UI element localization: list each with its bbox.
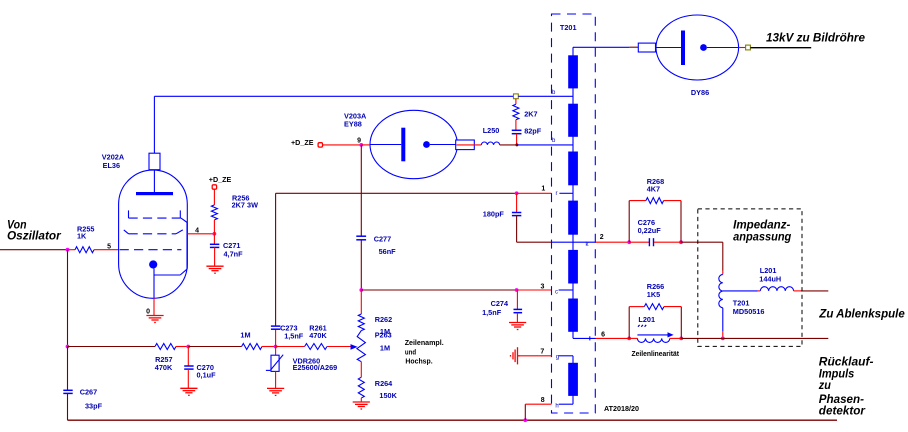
svg-text:P263: P263 xyxy=(375,331,392,340)
svg-text:1M: 1M xyxy=(380,344,390,353)
svg-text:Phasen-: Phasen- xyxy=(819,394,864,406)
svg-text:150K: 150K xyxy=(379,391,397,400)
svg-text:AT2018/20: AT2018/20 xyxy=(604,404,639,413)
svg-text:0,1uF: 0,1uF xyxy=(197,371,217,380)
svg-text:g: g xyxy=(556,354,559,360)
svg-text:Zu Ablenkspule: Zu Ablenkspule xyxy=(818,309,905,321)
svg-text:1K5: 1K5 xyxy=(647,290,660,299)
svg-text:470K: 470K xyxy=(155,363,173,372)
svg-text:E25600/A269: E25600/A269 xyxy=(293,363,338,372)
svg-text:Oszillator: Oszillator xyxy=(7,231,61,243)
svg-text:R262: R262 xyxy=(375,315,392,324)
svg-text:56nF: 56nF xyxy=(379,247,397,256)
svg-text:MD50516: MD50516 xyxy=(733,307,765,316)
svg-text:1,5nF: 1,5nF xyxy=(284,331,304,340)
svg-text:h: h xyxy=(555,403,558,409)
svg-text:1K: 1K xyxy=(77,232,87,241)
svg-text:82pF: 82pF xyxy=(524,127,542,136)
svg-text:DY86: DY86 xyxy=(691,88,709,97)
svg-text:Zeilenlinearität: Zeilenlinearität xyxy=(632,349,680,358)
svg-text:T201: T201 xyxy=(560,23,577,32)
svg-text:EL36: EL36 xyxy=(103,161,120,170)
svg-text:anpassung: anpassung xyxy=(733,231,791,243)
svg-text:zu: zu xyxy=(818,380,831,392)
svg-text:1,5nF: 1,5nF xyxy=(482,308,502,317)
svg-text:r: r xyxy=(556,191,558,197)
svg-text:1: 1 xyxy=(541,185,545,192)
svg-text:L250: L250 xyxy=(483,126,500,135)
svg-text:180pF: 180pF xyxy=(483,210,505,219)
svg-text:C274: C274 xyxy=(491,299,509,308)
svg-text:144uH: 144uH xyxy=(759,275,781,284)
svg-text:EY88: EY88 xyxy=(344,120,362,129)
svg-text:Rücklauf-: Rücklauf- xyxy=(819,357,874,369)
svg-text:2K7 3W: 2K7 3W xyxy=(232,201,258,210)
svg-text:R264: R264 xyxy=(375,379,393,388)
svg-text:13kV zu Bildröhre: 13kV zu Bildröhre xyxy=(766,33,866,45)
svg-text:2K7: 2K7 xyxy=(524,110,537,119)
svg-text:470K: 470K xyxy=(309,331,327,340)
svg-text:detektor: detektor xyxy=(819,406,866,418)
svg-text:C267: C267 xyxy=(80,388,97,397)
svg-text:0,22uF: 0,22uF xyxy=(638,226,662,235)
svg-text:33pF: 33pF xyxy=(85,402,103,411)
svg-text:4K7: 4K7 xyxy=(647,185,660,194)
svg-text:7: 7 xyxy=(540,349,544,356)
svg-text:+D_ZE: +D_ZE xyxy=(209,175,232,184)
svg-text:und: und xyxy=(405,348,416,357)
svg-text:+D_ZE: +D_ZE xyxy=(291,138,314,147)
svg-text:4,7nF: 4,7nF xyxy=(224,249,244,258)
svg-text:1M: 1M xyxy=(240,330,250,339)
svg-text:Hochsp.: Hochsp. xyxy=(405,356,432,365)
svg-text:C277: C277 xyxy=(374,235,391,244)
svg-text:Impedanz-: Impedanz- xyxy=(733,220,790,232)
svg-text:Impuls: Impuls xyxy=(819,368,855,380)
svg-text:L201: L201 xyxy=(638,315,655,324)
svg-text:6: 6 xyxy=(601,332,605,339)
svg-text:2: 2 xyxy=(600,234,604,241)
svg-text:c: c xyxy=(555,290,558,296)
svg-text:Zeilenampl.: Zeilenampl. xyxy=(405,338,444,347)
svg-text:0: 0 xyxy=(146,309,150,316)
svg-text:8: 8 xyxy=(541,397,545,404)
